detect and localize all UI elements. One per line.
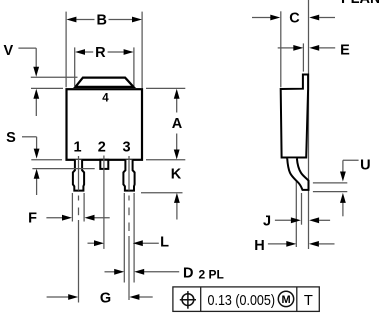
svg-text:2 PL: 2 PL — [199, 268, 224, 282]
svg-text:H: H — [254, 238, 264, 254]
svg-text:2: 2 — [98, 140, 106, 156]
svg-text:PLANE: PLANE — [341, 0, 379, 7]
svg-text:0.13 (0.005): 0.13 (0.005) — [208, 292, 276, 309]
svg-text:A: A — [172, 116, 183, 132]
svg-text:C: C — [289, 11, 300, 27]
svg-text:R: R — [95, 45, 106, 61]
svg-text:1: 1 — [74, 140, 82, 156]
svg-text:L: L — [160, 235, 169, 251]
svg-text:F: F — [28, 211, 37, 227]
svg-text:E: E — [340, 42, 350, 58]
svg-text:B: B — [96, 13, 106, 29]
svg-text:4: 4 — [102, 93, 109, 105]
svg-text:K: K — [171, 167, 182, 183]
svg-text:V: V — [3, 43, 13, 59]
svg-text:M: M — [282, 294, 291, 306]
svg-text:U: U — [360, 158, 370, 174]
svg-text:S: S — [6, 130, 16, 146]
svg-text:D: D — [183, 266, 193, 282]
svg-text:3: 3 — [122, 140, 130, 156]
svg-text:G: G — [100, 291, 111, 307]
svg-text:T: T — [304, 293, 313, 309]
svg-text:J: J — [263, 213, 271, 229]
